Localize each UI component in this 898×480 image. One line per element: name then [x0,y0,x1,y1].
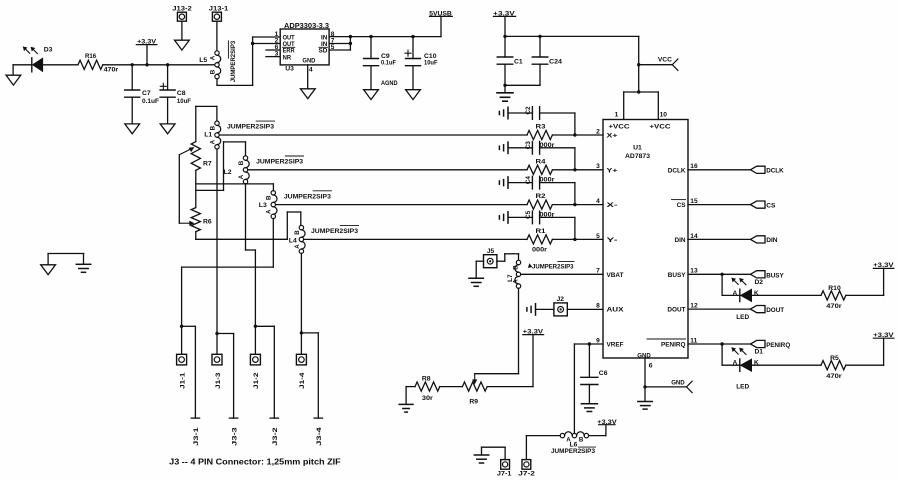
svg-text:15: 15 [690,198,698,205]
svg-text:CS: CS [677,202,687,209]
svg-text:DOUT: DOUT [667,307,685,314]
svg-text:C7: C7 [142,90,151,97]
svg-text:4: 4 [596,198,600,205]
svg-text:2: 2 [596,128,600,135]
svg-text:C6: C6 [599,370,608,377]
svg-text:B: B [579,436,584,443]
svg-text:JUMPER2SIP3: JUMPER2SIP3 [284,193,331,200]
svg-text:A: A [266,209,273,214]
svg-text:C3: C3 [525,141,532,150]
svg-text:VBAT: VBAT [607,272,624,279]
svg-text:R9: R9 [469,399,478,406]
svg-text:470r: 470r [826,373,842,380]
svg-text:JUMPER2SIP3: JUMPER2SIP3 [256,159,303,166]
svg-text:U3: U3 [285,66,294,73]
svg-text:AGND: AGND [381,80,398,87]
svg-text:JUMPER2SIP3: JUMPER2SIP3 [311,228,358,235]
svg-text:C1: C1 [514,59,523,66]
svg-text:+3.3V: +3.3V [873,332,894,339]
svg-text:LED: LED [736,314,749,321]
svg-text:L5: L5 [199,57,207,64]
svg-text:A: A [733,290,738,297]
svg-text:3: 3 [275,51,279,58]
svg-text:GND: GND [302,57,315,64]
svg-text:B: B [209,69,216,74]
svg-text:CS: CS [766,202,776,209]
svg-text:JUMPER2SIP3: JUMPER2SIP3 [227,124,274,131]
svg-text:R1: R1 [536,228,546,235]
svg-text:B: B [513,265,520,270]
svg-text:1: 1 [615,112,619,119]
svg-text:J1-3: J1-3 [215,372,222,389]
svg-text:J3-2: J3-2 [272,427,279,446]
svg-text:J7-1: J7-1 [497,471,512,478]
svg-text:GND: GND [637,352,651,359]
svg-text:Y-: Y- [607,237,618,244]
svg-text:470r: 470r [826,303,842,310]
svg-text:DIN: DIN [766,237,778,244]
svg-text:R16: R16 [85,53,96,60]
svg-text:L4: L4 [289,238,297,245]
svg-text:J3-3: J3-3 [231,427,238,446]
svg-text:L2: L2 [224,169,232,176]
svg-text:470r: 470r [104,66,119,73]
svg-text:JUMPER2SIP3: JUMPER2SIP3 [230,40,237,82]
svg-text:J1-4: J1-4 [299,372,306,389]
svg-text:J7-2: J7-2 [518,471,535,478]
svg-text:BUSY: BUSY [766,272,784,279]
svg-text:DOUT: DOUT [766,307,784,314]
svg-text:C24: C24 [549,59,562,66]
svg-text:+3.3V: +3.3V [137,38,156,45]
svg-text:C2: C2 [525,106,532,115]
svg-text:DCLK: DCLK [668,167,686,174]
svg-text:J13-2: J13-2 [172,5,192,12]
svg-text:VREF: VREF [607,342,624,349]
svg-text:B: B [238,160,245,165]
svg-text:+3.3V: +3.3V [523,329,544,336]
svg-text:NR: NR [283,54,292,61]
svg-text:B: B [294,230,301,235]
svg-text:ADP3303-3.3: ADP3303-3.3 [284,23,329,30]
svg-text:B: B [209,125,216,130]
svg-text:K: K [754,290,759,297]
svg-text:GND: GND [671,379,685,386]
svg-text:R7: R7 [203,160,212,167]
svg-text:DCLK: DCLK [766,168,784,175]
svg-text:0.1uF: 0.1uF [142,98,159,105]
svg-text:D1: D1 [755,349,764,356]
svg-text:R10: R10 [828,285,841,292]
svg-text:000r: 000r [532,246,547,253]
svg-text:PENIRQ: PENIRQ [766,342,790,349]
svg-text:L1: L1 [204,131,212,138]
svg-text:L7: L7 [507,274,514,282]
svg-text:10: 10 [660,112,668,119]
svg-text:JUMPER2SIP3: JUMPER2SIP3 [551,448,595,455]
svg-text:4: 4 [309,66,313,73]
svg-text:J3 -- 4 PIN Connector: 1,25mm: J3 -- 4 PIN Connector: 1,25mm pitch ZIF [169,457,341,467]
svg-text:3: 3 [596,163,600,170]
svg-text:6: 6 [649,362,653,369]
svg-text:8: 8 [596,303,600,310]
svg-text:SD: SD [319,48,328,55]
svg-text:R8: R8 [422,375,431,382]
svg-text:A: A [209,55,216,60]
svg-text:+3.3V: +3.3V [493,10,515,17]
svg-text:+VCC: +VCC [650,124,671,131]
svg-text:R3: R3 [536,124,546,131]
svg-text:A: A [209,139,216,144]
svg-text:X-: X- [607,202,618,209]
svg-text:10uF: 10uF [177,98,191,105]
svg-text:A: A [733,360,738,367]
svg-text:X+: X+ [607,133,618,140]
svg-text:C5: C5 [525,210,532,219]
svg-text:PENIRQ: PENIRQ [661,342,686,349]
svg-text:Y+: Y+ [607,167,618,174]
svg-text:L3: L3 [259,202,267,209]
svg-text:5VUSB: 5VUSB [429,10,452,17]
svg-text:30r: 30r [422,395,433,402]
svg-text:10uF: 10uF [424,59,438,66]
svg-text:R5: R5 [830,355,839,362]
svg-text:J13-1: J13-1 [209,5,229,12]
svg-text:J3-1: J3-1 [193,427,200,446]
svg-text:J1-2: J1-2 [253,372,260,389]
svg-text:+3.3V: +3.3V [873,262,894,269]
svg-text:0.1uF: 0.1uF [381,59,396,66]
svg-text:BUSY: BUSY [668,272,686,279]
svg-text:AUX: AUX [607,307,625,314]
svg-text:R4: R4 [536,158,546,165]
svg-text:LED: LED [736,384,749,391]
svg-text:R2: R2 [536,193,546,200]
svg-text:B: B [266,195,273,200]
svg-text:AD7873: AD7873 [625,153,650,160]
svg-text:+VCC: +VCC [609,124,630,131]
svg-text:+3.3V: +3.3V [597,419,617,426]
svg-text:R6: R6 [203,218,212,225]
svg-text:D3: D3 [44,47,53,54]
svg-text:A: A [238,174,245,179]
svg-text:D2: D2 [755,279,764,286]
svg-text:JUMPER2SIP3: JUMPER2SIP3 [532,263,574,270]
svg-text:VCC: VCC [658,57,672,64]
svg-text:16: 16 [690,163,698,170]
svg-text:J1-1: J1-1 [179,372,186,389]
svg-text:U1: U1 [633,145,642,152]
svg-text:C8: C8 [177,90,186,97]
svg-text:J2: J2 [557,296,565,303]
svg-text:J3-4: J3-4 [316,427,323,446]
svg-text:C4: C4 [525,176,532,185]
svg-text:DIN: DIN [674,237,685,244]
svg-text:K: K [754,360,759,367]
